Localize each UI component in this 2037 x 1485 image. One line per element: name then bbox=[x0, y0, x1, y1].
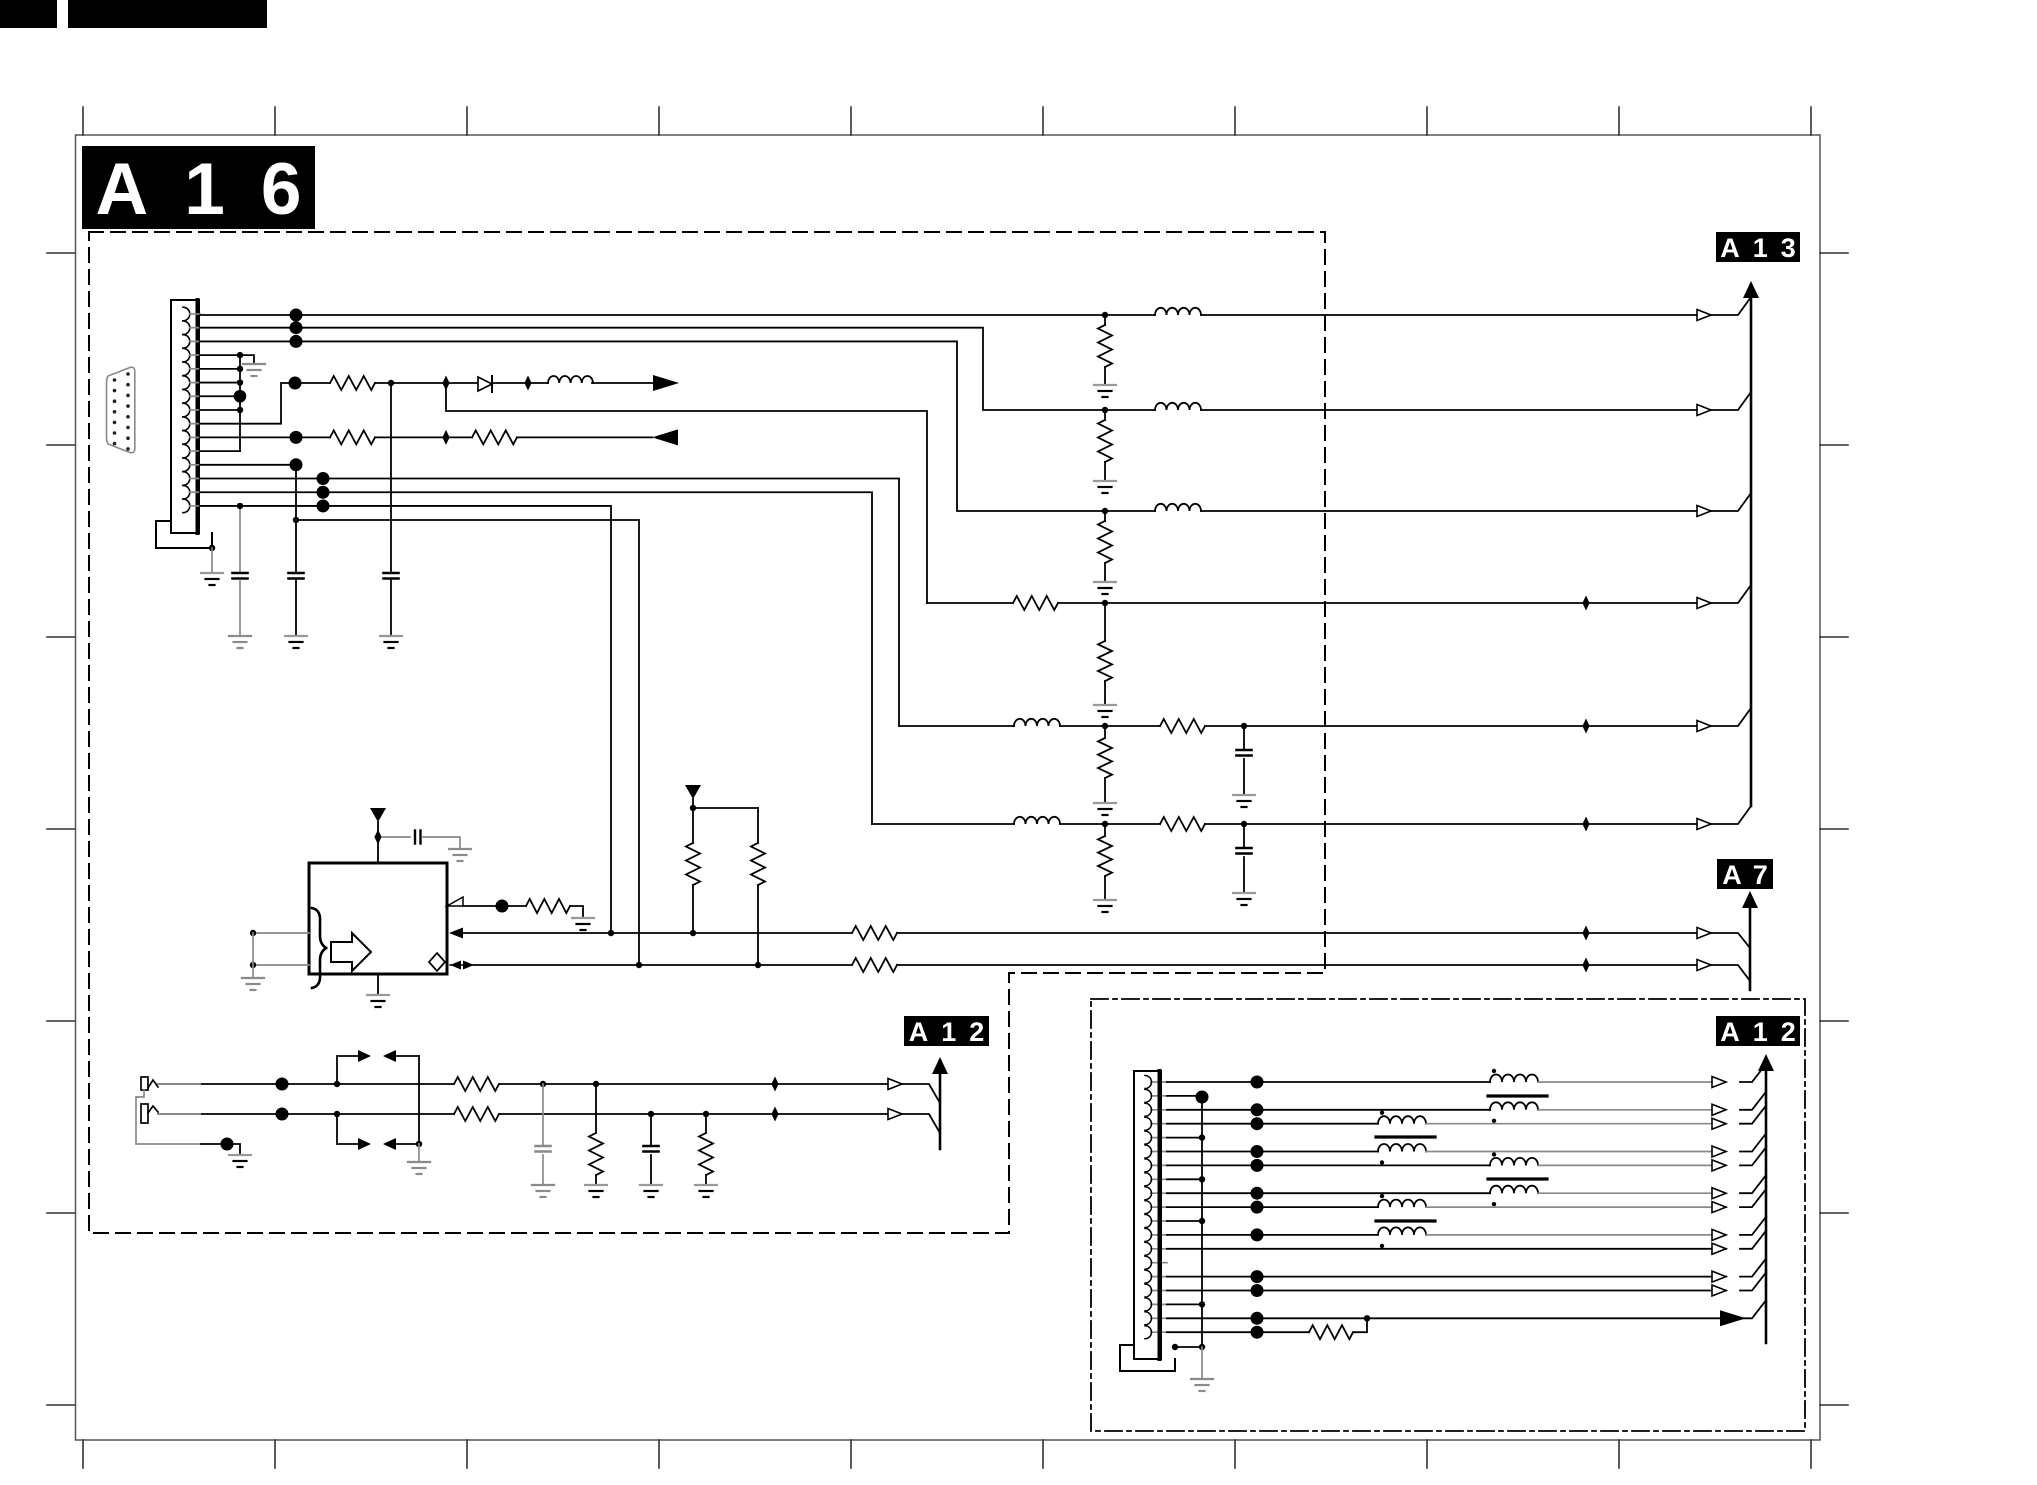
junction dot J3 pin18 bbox=[1251, 1312, 1264, 1325]
ground below C3 bbox=[380, 636, 402, 648]
wire pin13 to bus A12 bbox=[1740, 1231, 1766, 1249]
wire pin12 to cap column bbox=[200, 464, 296, 466]
connector J1 shell bbox=[156, 521, 212, 548]
diamond node supply line B bbox=[524, 376, 531, 391]
wire pin4 to ground bus bbox=[200, 354, 240, 356]
junction dot supply line bbox=[289, 377, 302, 390]
phase dot T2b bbox=[1380, 1160, 1384, 1164]
wire T2b to arrow bbox=[1426, 1151, 1726, 1153]
U1 SCL bidirectional arrow bbox=[450, 961, 461, 970]
resistor to ground line4 bbox=[1104, 603, 1106, 641]
junction dots on ground bus bbox=[237, 352, 243, 413]
wire line6 to bus A13 bbox=[1711, 806, 1751, 824]
arrowhead line4 to A13 bbox=[1697, 598, 1711, 609]
bus to A12 bottom right bbox=[1765, 1070, 1768, 1343]
junction dot J3 pin3 bbox=[1251, 1103, 1264, 1116]
wire J3 pin6 line bbox=[1167, 1151, 1378, 1153]
wire sleeve to ground bbox=[201, 1144, 240, 1155]
resistor to ground line5 bbox=[1104, 726, 1106, 738]
inductor line6 bbox=[872, 823, 1014, 825]
arrowhead J3 pin16 to A12 bbox=[1712, 1285, 1726, 1296]
resistor 2 on pin10 line bbox=[472, 430, 517, 444]
node line4 at filter bbox=[1102, 600, 1108, 606]
wire SDA line bbox=[463, 932, 852, 934]
wire pin6 to bus A12 bbox=[1740, 1134, 1766, 1152]
wire J3 pin2 to ground bus bbox=[1167, 1095, 1202, 1097]
wire pull-up SDA down bbox=[692, 885, 694, 933]
phase dot T1b bbox=[1492, 1119, 1496, 1123]
node R at filter bbox=[1102, 312, 1108, 318]
wire ground bus to ground symbol bbox=[240, 355, 254, 364]
wire G line to bus A13 bbox=[1711, 392, 1751, 410]
wire R video line bbox=[200, 314, 1105, 316]
ground at J1 shell bbox=[211, 548, 213, 573]
wire T3t to arrow bbox=[1538, 1164, 1726, 1166]
junction audio L clamp tap bbox=[334, 1081, 340, 1087]
resistor in line 4 bbox=[927, 602, 1013, 604]
wire to input arrow pin10 line bbox=[517, 436, 652, 438]
ground below C2 bbox=[285, 636, 307, 648]
wire J3 pin3 line bbox=[1167, 1109, 1490, 1111]
arrowhead J3 pin12 to A12 bbox=[1712, 1229, 1726, 1240]
wire supply branch to H-line bbox=[446, 383, 927, 603]
choke T1 core bbox=[1488, 1094, 1547, 1097]
wire pin3 to bus A12 bbox=[1740, 1092, 1766, 1110]
bus arrow A12 middle bbox=[932, 1057, 948, 1074]
jack J2 sleeve frame bbox=[136, 1090, 201, 1144]
wire clamp right column bbox=[418, 1056, 420, 1144]
junction dot pin10 line bbox=[290, 431, 303, 444]
junction dot J3 pin9 bbox=[1251, 1187, 1264, 1200]
wire C2 to ground bbox=[295, 580, 297, 636]
IC U1 body bbox=[309, 863, 447, 974]
inductor line5 bbox=[899, 725, 1014, 727]
wire cap to ground bbox=[390, 580, 392, 636]
phase dot T4b bbox=[1380, 1244, 1384, 1248]
arrowhead SDA to A7 bbox=[1697, 928, 1711, 939]
wire pin12 column down bbox=[295, 465, 297, 571]
wire U1 bottom to ground bbox=[377, 974, 379, 995]
wire pin19 resistor up to pin18 bbox=[1353, 1318, 1367, 1332]
ground near J1 top bbox=[243, 364, 265, 376]
junction dot J3 pin15 bbox=[1251, 1270, 1264, 1283]
wire J3 pin5 to ground bus bbox=[1167, 1137, 1202, 1139]
bus to A7 bbox=[1749, 907, 1752, 990]
junction dot audio L bbox=[276, 1078, 289, 1091]
title bar black block left bbox=[0, 0, 57, 28]
resistor audio R to ground bbox=[705, 1114, 707, 1133]
arrowhead J3 pin9 to A12 bbox=[1712, 1188, 1726, 1199]
title bar black block right bbox=[68, 0, 267, 28]
ground at clamp diodes bbox=[408, 1162, 430, 1174]
capacitor line5 bbox=[1243, 726, 1245, 750]
wire U1 left pins to ground bbox=[252, 933, 254, 978]
wire J3 ground bus tail bbox=[1201, 1347, 1203, 1379]
wire J3 pin11 to ground bus bbox=[1167, 1220, 1202, 1222]
diamond node audio L bbox=[771, 1077, 778, 1092]
wire pin15 to SDA column bbox=[200, 506, 611, 933]
wire R line to bus A13 bbox=[1711, 297, 1751, 315]
ground at clock resistor bbox=[572, 918, 594, 930]
wire audio L to bus A12 bbox=[902, 1084, 940, 1103]
svg-text:A13: A13 bbox=[1720, 233, 1809, 263]
border tick marks right bbox=[1820, 253, 1848, 1405]
label A12 middle bbox=[904, 1016, 989, 1046]
inductor on B line bbox=[1105, 510, 1155, 512]
resistor to ground on B line bbox=[1104, 511, 1106, 521]
pull-up resistor SDA bbox=[686, 843, 700, 885]
ground bus vertical bbox=[239, 355, 241, 451]
arrowhead R line to A13 bbox=[1697, 310, 1711, 321]
resistor on pin10 line bbox=[330, 430, 375, 444]
choke T2 core bbox=[1376, 1135, 1435, 1138]
inductor on R line bbox=[1105, 314, 1155, 316]
wire J3 pin7 line bbox=[1167, 1164, 1490, 1166]
wire J3 pin4 line bbox=[1167, 1123, 1378, 1125]
connector J1 pin arcs bbox=[183, 307, 190, 513]
ground below J3 bbox=[1191, 1379, 1213, 1391]
wire J3 pin15 line bbox=[1167, 1276, 1726, 1278]
capacitor C1 gray bbox=[233, 573, 248, 579]
junction dot J3 pin7 bbox=[1251, 1159, 1264, 1172]
wire J3 pin10 line bbox=[1167, 1206, 1378, 1208]
junction dot pin13 bbox=[317, 472, 330, 485]
U1 clock pin triangle bbox=[447, 897, 463, 906]
wire pin11 to ground bus bbox=[200, 450, 240, 452]
ground bus J3 bbox=[1201, 1097, 1203, 1347]
junction dots U1 left pins bbox=[250, 930, 256, 968]
wire SCL feed bbox=[296, 520, 639, 965]
junction SCL tap bbox=[293, 517, 299, 523]
wire pin7 to ground bus bbox=[200, 395, 240, 397]
border tick marks left bbox=[47, 253, 75, 1405]
junction dot pin15 bbox=[317, 499, 330, 512]
diamond node line6 bbox=[1582, 817, 1589, 832]
choke T4 core bbox=[1376, 1219, 1435, 1222]
bus arrow A12 bottom right bbox=[1758, 1054, 1774, 1071]
ground below audio R resistor bbox=[695, 1185, 717, 1197]
wire pin10 to bus A12 bbox=[1740, 1189, 1766, 1207]
junction dot R line bbox=[290, 309, 303, 322]
wire pin15 tap to gray cap bbox=[239, 506, 241, 571]
wire J3 pin1 line bbox=[1167, 1081, 1490, 1083]
wire line5 to bus A13 bbox=[1711, 708, 1751, 726]
node line6 at filter bbox=[1102, 821, 1108, 827]
junction clamp ground tap bbox=[416, 1141, 422, 1147]
power symbol at U1 bbox=[370, 808, 386, 822]
ground line6 bbox=[1094, 900, 1116, 912]
wire G video line bbox=[200, 328, 1105, 410]
ground below line5 cap bbox=[1233, 795, 1255, 807]
ground below U1 left pins bbox=[242, 978, 264, 990]
wire pin18 to bus A12 bbox=[1740, 1300, 1766, 1318]
junction dot pin19 resistor tap bbox=[1364, 1315, 1370, 1321]
node G at filter bbox=[1102, 407, 1108, 413]
resistor to ground line6 bbox=[1104, 824, 1106, 836]
wire pull-up SCL down bbox=[757, 885, 759, 965]
ground below line6 cap bbox=[1233, 893, 1255, 905]
arrowhead line6 to A13 bbox=[1697, 819, 1711, 830]
resistor on pin19 bbox=[1309, 1325, 1353, 1339]
wire T1b to arrow bbox=[1538, 1109, 1726, 1111]
junction dot J3 pin10 bbox=[1251, 1201, 1264, 1214]
junction audio R clamp tap bbox=[334, 1111, 340, 1117]
capacitor C2 bbox=[289, 573, 304, 579]
resistor to ground on G line bbox=[1104, 410, 1106, 420]
border frame bbox=[76, 135, 1821, 1440]
wire U1 clock pin bbox=[463, 905, 526, 907]
border tick marks top bbox=[83, 107, 1811, 135]
arrowhead B line to A13 bbox=[1697, 506, 1711, 517]
ground line4 bbox=[1094, 705, 1116, 717]
ground below audio L resistor bbox=[585, 1185, 607, 1197]
wire J3 pin19 line bbox=[1167, 1331, 1309, 1333]
wire between resistors pin10 line bbox=[375, 436, 472, 438]
ground below C1 gray bbox=[229, 636, 251, 648]
arrowhead G line to A13 bbox=[1697, 405, 1711, 416]
diamond node supply line A bbox=[442, 376, 449, 391]
diamond node line5 bbox=[1582, 719, 1589, 734]
resistor series SDA bbox=[852, 926, 897, 940]
resistor series line5 bbox=[1105, 725, 1160, 727]
junction dot audio R bbox=[276, 1108, 289, 1121]
DB15 connector face symbol bbox=[107, 367, 135, 453]
power symbol pull-ups bbox=[685, 785, 701, 799]
board label A16 bbox=[82, 146, 315, 229]
wire C1 to ground gray bbox=[239, 580, 241, 636]
wire diode to inductor bbox=[492, 382, 548, 384]
resistor series SCL bbox=[852, 958, 897, 972]
wire SDA to bus A7 bbox=[1711, 933, 1750, 948]
capacitor audio R bbox=[650, 1114, 652, 1146]
junction dot clock pin bbox=[496, 900, 509, 913]
wire pin15 to bus A12 bbox=[1740, 1259, 1766, 1277]
junction dots J3 shell bbox=[1172, 1344, 1205, 1350]
U1 internal brace bbox=[312, 908, 326, 988]
connector J1 pin stubs bbox=[190, 314, 201, 506]
resistor series line6 bbox=[1105, 823, 1160, 825]
svg-text:A7: A7 bbox=[1722, 860, 1779, 890]
arrowhead audio L to A12 bbox=[888, 1079, 902, 1090]
wire pin6 to ground bus bbox=[200, 382, 240, 384]
node line5 at filter bbox=[1102, 723, 1108, 729]
choke winding T4b bbox=[1378, 1227, 1426, 1234]
connector J3 pin arcs bbox=[1145, 1076, 1152, 1339]
resistor R on supply line bbox=[330, 376, 375, 390]
connector J3 body bbox=[1134, 1071, 1161, 1359]
wire power to pull-ups bbox=[692, 799, 694, 843]
wire SCL to bus A7 bbox=[1711, 965, 1750, 981]
diamond node U1 supply bbox=[374, 830, 381, 845]
filled arrow input pin10 line bbox=[652, 429, 678, 445]
arrowhead J3 pin1 to A12 bbox=[1712, 1077, 1726, 1088]
svg-text:A12: A12 bbox=[909, 1017, 998, 1047]
bus to A12 middle bbox=[939, 1073, 942, 1149]
diamond node line4 bbox=[1582, 596, 1589, 611]
arrowhead J3 pin15 to A12 bbox=[1712, 1271, 1726, 1282]
junction dot J3 pin16 bbox=[1251, 1284, 1264, 1297]
junction big dot J3 pin2 bbox=[1196, 1091, 1209, 1104]
phase dot T3b bbox=[1492, 1202, 1496, 1206]
node B at filter bbox=[1102, 508, 1108, 514]
arrowhead audio R to A12 bbox=[888, 1109, 902, 1120]
jack J2 contact 2 bbox=[141, 1104, 148, 1123]
ground line5 bbox=[1094, 803, 1116, 815]
junction dot at power bbox=[690, 805, 696, 811]
wire T4t to arrow bbox=[1426, 1206, 1726, 1208]
clamp diode pair top bbox=[358, 1050, 371, 1062]
label A12 bottom right bbox=[1716, 1016, 1800, 1046]
junction dots audio R filters bbox=[648, 1111, 709, 1117]
wire J3 pin9 line bbox=[1167, 1192, 1490, 1194]
resistor audio L to ground bbox=[595, 1084, 597, 1133]
clamp diode pair bottom bbox=[358, 1138, 371, 1150]
capacitor at U1 supply bbox=[415, 831, 421, 844]
inductor on G line bbox=[1105, 409, 1155, 411]
wire clamp bottom rail bbox=[337, 1114, 360, 1144]
bus to A13 bbox=[1750, 297, 1753, 806]
border tick marks bottom bbox=[83, 1440, 1811, 1468]
wire J3 pin17 to ground bus bbox=[1167, 1303, 1202, 1305]
junction dot J3 pin6 bbox=[1251, 1145, 1264, 1158]
wire pin16 to bus A12 bbox=[1740, 1273, 1766, 1291]
pull-up resistor SCL bbox=[751, 843, 765, 885]
junction dot sleeve bbox=[221, 1138, 234, 1151]
junction dots SCL bbox=[636, 962, 761, 968]
wire pin7 to bus A12 bbox=[1740, 1147, 1766, 1165]
wire clamp to ground bbox=[418, 1144, 420, 1162]
ground on R line bbox=[1094, 385, 1116, 397]
U1 internal arrow symbol bbox=[331, 933, 371, 971]
board outline A12 dash-dot bbox=[1091, 999, 1805, 1431]
wire supply tap to bypass cap bbox=[390, 383, 392, 571]
junction big dot pin7 on ground bus bbox=[234, 390, 247, 403]
ground below audio R cap bbox=[640, 1185, 662, 1197]
choke winding T2t bbox=[1378, 1116, 1426, 1123]
phase dot T1t bbox=[1492, 1069, 1496, 1073]
capacitor C3 bypass bbox=[384, 573, 399, 579]
arrowhead J3 pin13 to A12 bbox=[1712, 1243, 1726, 1254]
wire B line to bus A13 bbox=[1711, 493, 1751, 511]
svg-text:A16: A16 bbox=[96, 149, 338, 230]
wire pin4 to bus A12 bbox=[1740, 1106, 1766, 1124]
diamond node SDA bbox=[1582, 926, 1589, 941]
ground below audio L cap bbox=[532, 1185, 554, 1197]
wire J3 shell to ground bus bbox=[1175, 1346, 1202, 1348]
phase dot T2t bbox=[1380, 1111, 1384, 1115]
wire T4b to arrow bbox=[1426, 1234, 1726, 1236]
label A7 bbox=[1717, 859, 1773, 889]
junction dots SDA bbox=[608, 930, 696, 936]
wire pin8 to ground bus bbox=[200, 409, 240, 411]
junction dot J3 pin1 bbox=[1251, 1076, 1264, 1089]
junction dot J3 pin4 bbox=[1251, 1117, 1264, 1130]
wire B video line bbox=[200, 341, 1105, 511]
arrowhead J3 pin6 to A12 bbox=[1712, 1146, 1726, 1157]
ground below U1 bbox=[367, 995, 389, 1007]
junction dot J3 pin19 bbox=[1251, 1326, 1264, 1339]
junction dot B line bbox=[290, 335, 303, 348]
label A13 bbox=[1716, 232, 1800, 262]
resistor series audio L bbox=[454, 1077, 499, 1091]
wire resistor to diode bbox=[375, 382, 478, 384]
choke T3 core bbox=[1488, 1177, 1547, 1180]
wire cap to ground U1 bbox=[422, 837, 460, 849]
jack J2 contact 1 bbox=[141, 1077, 148, 1090]
resistor series audio R bbox=[454, 1107, 499, 1121]
arrowhead J3 pin3 to A12 bbox=[1712, 1104, 1726, 1115]
junction at supply tap bbox=[388, 380, 394, 386]
wire audio R gray part bbox=[158, 1113, 200, 1115]
choke winding T2b bbox=[1378, 1144, 1426, 1152]
arrowhead J3 pin7 to A12 bbox=[1712, 1160, 1726, 1171]
wire supply to cap U1 bbox=[382, 836, 410, 838]
wire pin10 line start bbox=[200, 436, 330, 438]
junction dot J3 pin12 bbox=[1251, 1228, 1264, 1241]
capacitor audio L bbox=[542, 1084, 544, 1146]
connector J3 pin stubs bbox=[1151, 1082, 1167, 1332]
wire line4 to bus A13 bbox=[1711, 585, 1751, 603]
wire inductor to output arrow bbox=[592, 382, 653, 384]
board outline A16 dashed bbox=[89, 232, 1325, 1233]
capacitor line6 bbox=[1243, 824, 1245, 848]
diamond node audio R bbox=[771, 1107, 778, 1122]
arrowhead line5 to A13 bbox=[1697, 721, 1711, 732]
svg-text:A12: A12 bbox=[1720, 1017, 1809, 1047]
bus arrow A7 bbox=[1742, 891, 1758, 908]
wire pin9 riser to supply line bbox=[200, 383, 330, 424]
phase dot T3t bbox=[1492, 1152, 1496, 1156]
wire audio R line bbox=[158, 1113, 454, 1115]
U1 left pins bbox=[253, 932, 309, 934]
choke winding T1t bbox=[1490, 1075, 1538, 1082]
filled arrow supply output bbox=[653, 375, 679, 391]
filled arrow pin18 to A12 bbox=[1720, 1310, 1746, 1326]
wire J3 pin16 line bbox=[1167, 1290, 1726, 1292]
wire J3 pin8 to ground bus bbox=[1167, 1178, 1202, 1180]
resistor to ground on R line bbox=[1104, 315, 1106, 325]
wire pin1 to bus A12 bbox=[1740, 1064, 1766, 1082]
inductor on supply line bbox=[548, 376, 593, 383]
junction dot pin14 bbox=[317, 486, 330, 499]
ground at jack sleeve bbox=[229, 1155, 251, 1167]
wire clamp top rail bbox=[337, 1056, 360, 1084]
U1 SDA pin arrow bbox=[449, 928, 463, 939]
diode D1 bbox=[478, 377, 492, 391]
choke winding T1b bbox=[1490, 1102, 1538, 1110]
diamond node SCL bbox=[1582, 958, 1589, 973]
junction dot pin12 bbox=[290, 458, 303, 471]
node line6 cap bbox=[1241, 821, 1247, 827]
arrowhead J3 pin4 to A12 bbox=[1712, 1118, 1726, 1129]
wire power to U1 bbox=[377, 822, 379, 863]
diamond node pin10 line bbox=[442, 430, 449, 445]
choke winding T3t bbox=[1490, 1158, 1538, 1166]
wire pin13 to H-sync column bbox=[200, 479, 899, 726]
wire T3b to arrow bbox=[1538, 1192, 1726, 1194]
wire clock resistor to ground bbox=[570, 906, 583, 918]
wire line4 to arrow bbox=[1105, 602, 1697, 604]
wire SCL line bbox=[474, 964, 852, 966]
ground at U1 supply cap bbox=[449, 849, 471, 861]
wire J3 pin12 line bbox=[1167, 1234, 1378, 1236]
wire J3 pin13 line bbox=[1167, 1248, 1726, 1250]
junction dots on J3 ground bus bbox=[1199, 1134, 1205, 1307]
wire pin5 to ground bus bbox=[200, 368, 240, 370]
junction on J1 shell bbox=[209, 545, 215, 551]
wire audio L line bbox=[158, 1083, 454, 1085]
wire pin9 to bus A12 bbox=[1740, 1175, 1766, 1193]
